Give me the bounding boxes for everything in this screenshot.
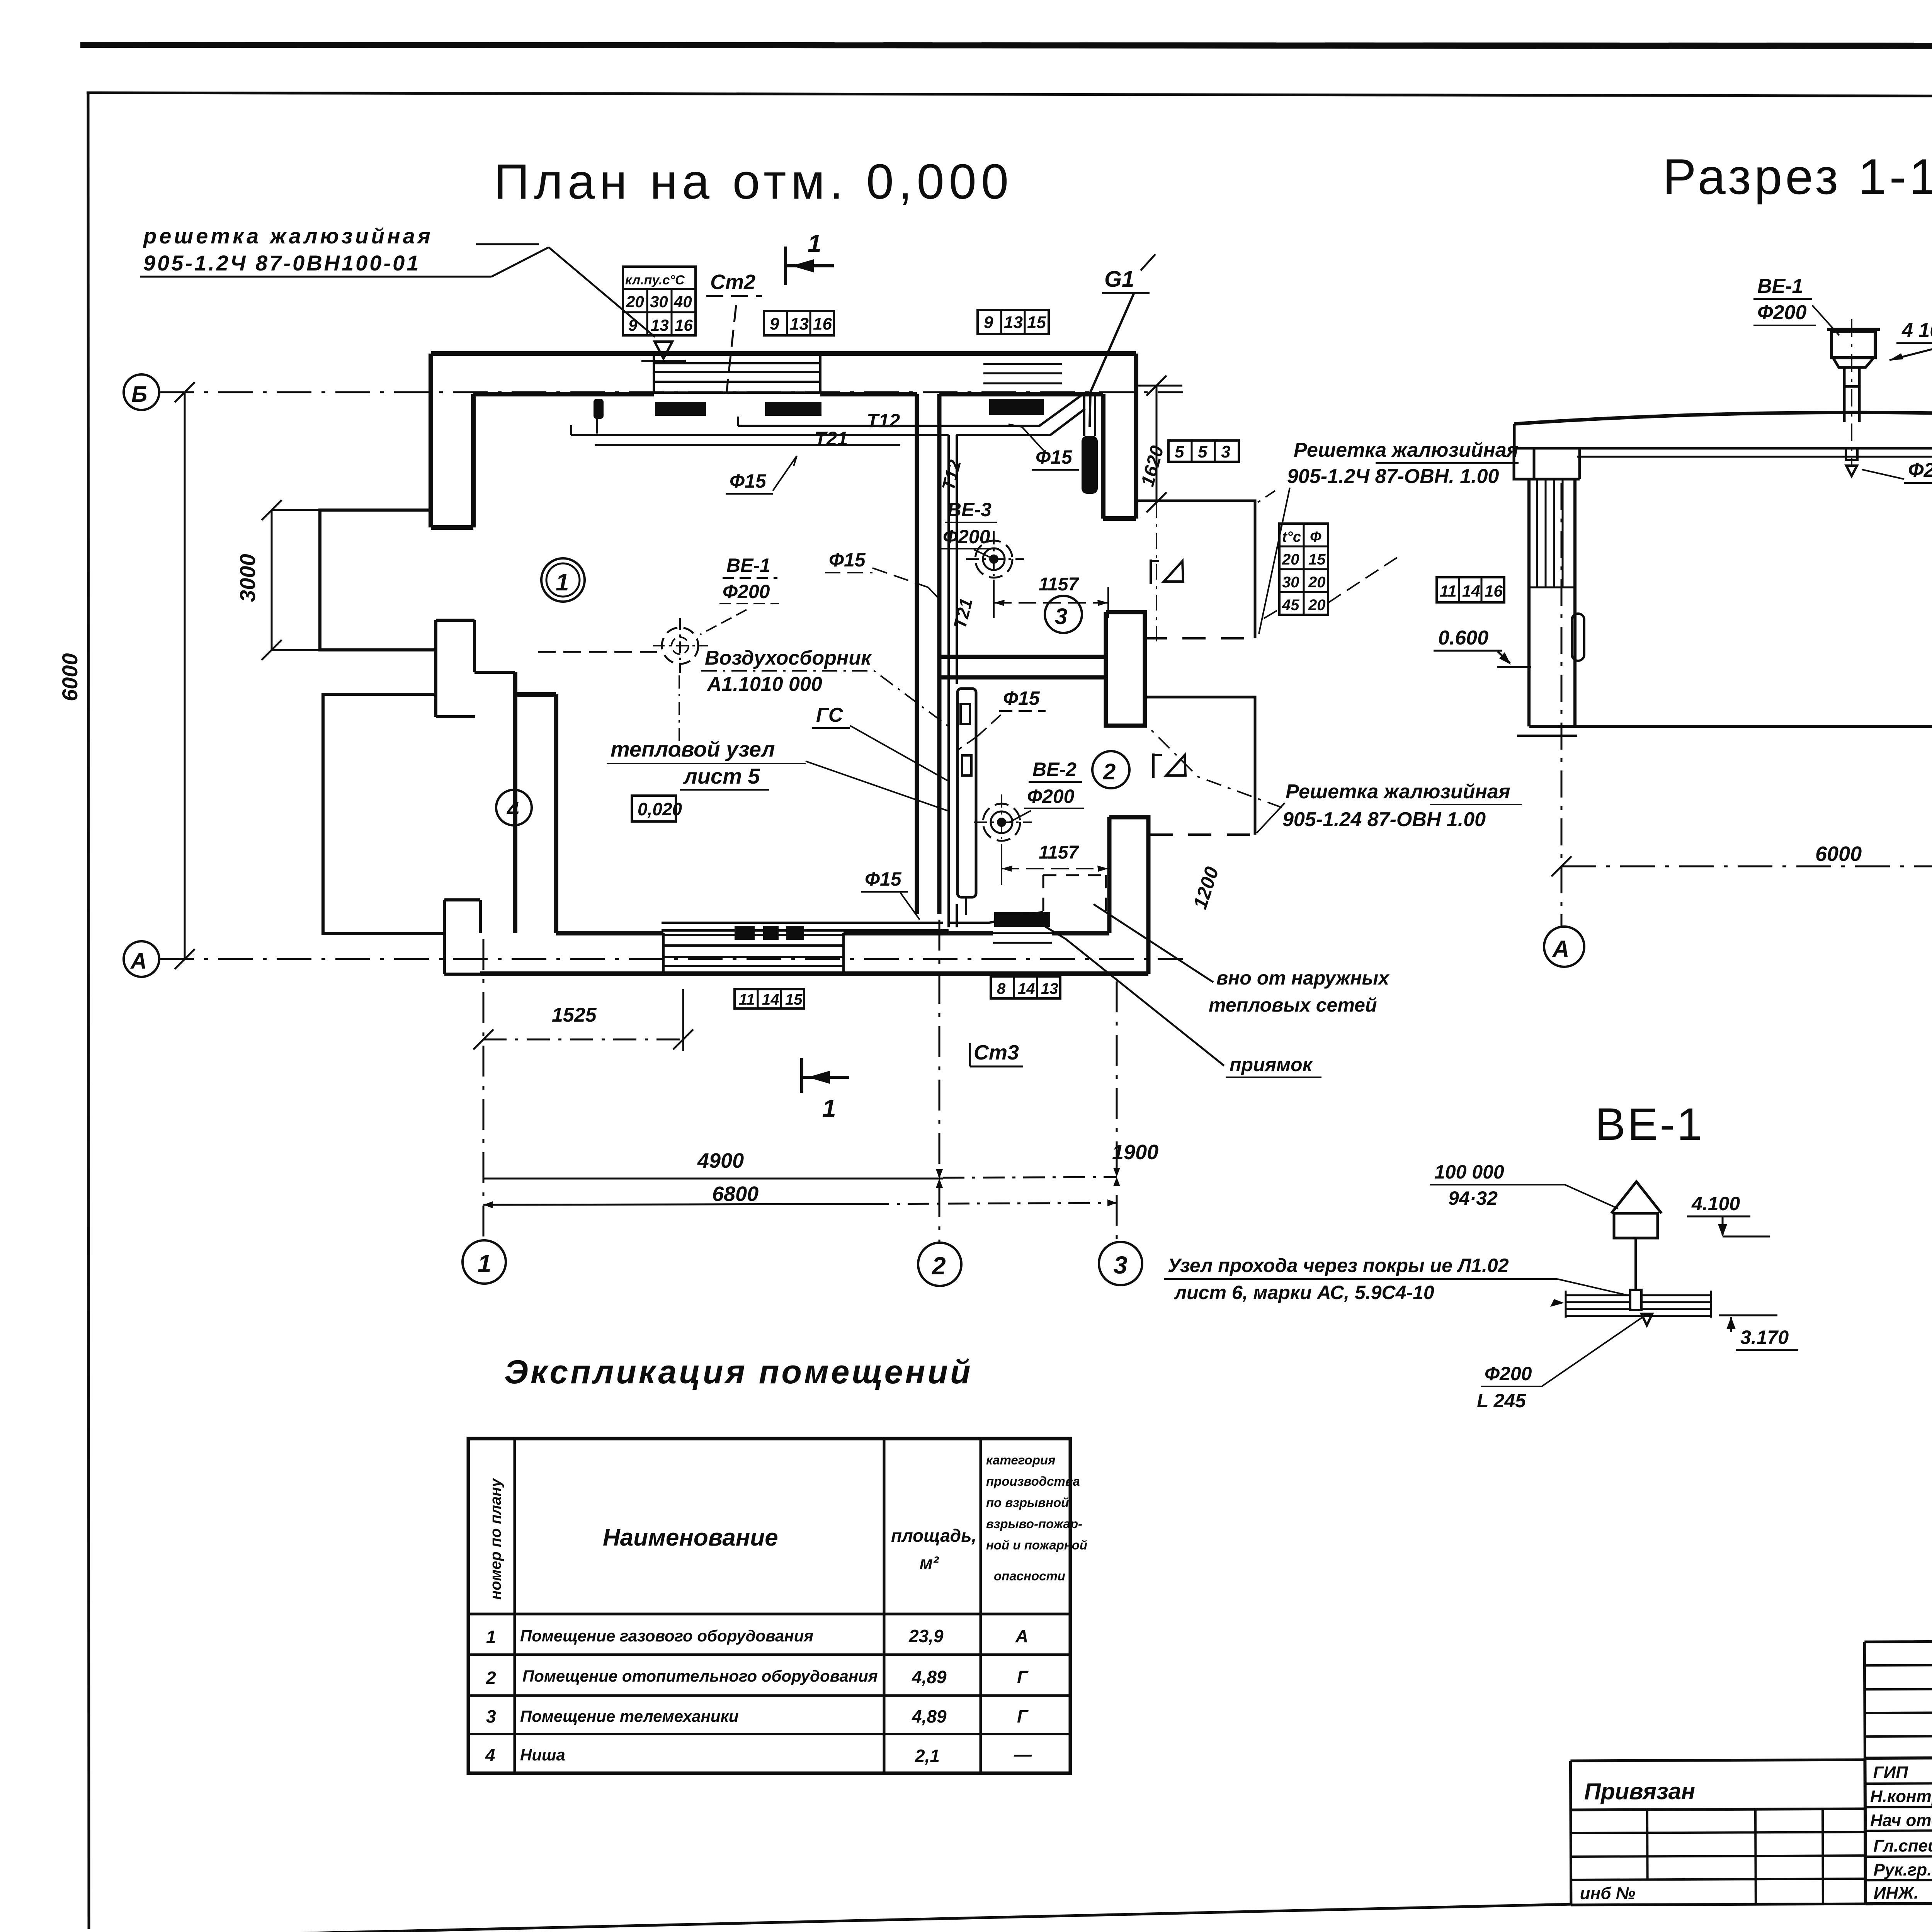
svg-text:1157: 1157 [1039,842,1080,863]
svg-text:9: 9 [628,316,638,334]
room mark 2 [1092,751,1129,788]
wall: left lower inner line [515,694,556,933]
svg-text:Ф200: Ф200 [1757,301,1806,324]
pipe loop at left radiator [571,417,900,445]
svg-text:Г: Г [1017,1706,1029,1726]
svg-text:Ст2: Ст2 [710,270,755,294]
svg-text:15: 15 [1308,551,1326,568]
dim 6800 line [483,1204,867,1205]
svg-text:А: А [130,949,147,974]
svg-text:100 000: 100 000 [1434,1161,1504,1183]
heat unit device [957,689,976,897]
svg-text:30: 30 [1282,574,1299,591]
svg-text:13: 13 [651,316,669,334]
svg-text:ВЕ-1: ВЕ-1 [1757,275,1803,298]
svg-text:2: 2 [1103,759,1116,784]
radiator hatched block room3 top [989,399,1044,415]
svg-text:8: 8 [997,980,1006,997]
vent BE-2 symbol [974,794,1032,850]
table header bottom [468,1613,1070,1616]
sheet frame top line [87,93,1932,97]
svg-text:4: 4 [507,797,519,821]
svg-text:0.600: 0.600 [1438,627,1488,649]
svg-text:опасности: опасности [994,1569,1065,1583]
svg-text:А1.1010 000: А1.1010 000 [706,673,822,696]
svg-text:Наименование: Наименование [603,1524,778,1551]
svg-text:3: 3 [1114,1251,1128,1279]
svg-text:13: 13 [1004,313,1023,332]
svg-text:Б: Б [131,382,147,407]
svg-text:Нач отд: Нач отд [1870,1811,1932,1830]
dashed box under dim room2 [1043,875,1106,912]
window louver lines in top wall [654,354,820,394]
svg-text:3: 3 [1221,442,1230,461]
svg-text:Решетка жалюзийная: Решетка жалюзийная [1286,781,1510,803]
pier bottom-left [444,900,481,974]
svg-text:23,9: 23,9 [908,1626,944,1646]
svg-text:3: 3 [1055,604,1067,629]
svg-text:6000: 6000 [1815,842,1862,866]
dim 4900/1900 line [483,1178,943,1180]
svg-text:2,1: 2,1 [915,1746,940,1766]
room mark 1 [541,558,585,602]
wall: top exterior inner line (left of window) [473,392,654,396]
svg-text:3: 3 [486,1706,496,1726]
axis 1 vertical [483,939,485,1240]
svg-text:4.100: 4.100 [1691,1193,1740,1214]
svg-text:94·32: 94·32 [1448,1187,1498,1209]
svg-text:20: 20 [626,293,644,311]
svg-text:Помещение телемеханики: Помещение телемеханики [520,1707,739,1725]
svg-text:номер по плану: номер по плану [487,1478,504,1600]
vent neck [1833,358,1874,367]
interior partition vertical double line [917,394,939,914]
svg-text:производства: производства [986,1474,1080,1488]
wall: bottom exterior inner segments [556,931,1109,935]
wall: left upper outer line [429,354,433,527]
pipe T21 horizontal [748,409,1085,435]
svg-text:Помещение газового оборудова: Помещение газового оборудования [520,1627,813,1645]
table row lines [468,1655,1070,1734]
box 8 14 13 bottom [991,976,1060,998]
svg-text:Решетка жалюзийная: Решетка жалюзийная [1294,439,1518,461]
louver lines left wall [1529,479,1575,587]
niche upper outline [320,510,436,650]
svg-text:9: 9 [770,315,779,333]
svg-text:20: 20 [1282,551,1299,568]
axis A line [159,958,1183,960]
svg-text:м²: м² [920,1553,939,1573]
svg-text:t°c: t°c [1282,529,1301,545]
svg-text:4,89: 4,89 [912,1706,947,1726]
svg-text:14: 14 [1462,582,1480,600]
svg-text:4,89: 4,89 [912,1667,947,1687]
svg-text:Ф15: Ф15 [829,549,866,571]
bottom sill hatched blocks [735,926,755,940]
svg-text:Ф15: Ф15 [865,868,902,890]
svg-text:3.170: 3.170 [1740,1327,1789,1348]
svg-text:9: 9 [984,313,993,332]
louver lines small top-right window [983,364,1062,383]
svg-text:11: 11 [1440,582,1457,600]
svg-text:905-1.2Ч 87-ОВН. 1.00: 905-1.2Ч 87-ОВН. 1.00 [1287,465,1499,488]
svg-text:Ф200: Ф200 [1027,786,1075,807]
svg-text:ВЕ-1: ВЕ-1 [726,554,770,576]
svg-text:3000: 3000 [235,554,260,602]
svg-text:11: 11 [739,991,755,1008]
svg-text:Ф15: Ф15 [730,470,767,492]
radiator hatched block below window right [765,402,821,416]
roof slab end caps [1514,421,1932,448]
svg-text:20: 20 [1308,574,1326,591]
sheet heavy top rule [80,45,1932,46]
pipe T12 horizontal [738,395,1082,426]
roof slab top curve [1514,412,1932,424]
svg-text:инб №: инб № [1580,1884,1636,1903]
svg-text:Ф: Ф [1310,529,1321,545]
BE-1 sleeve [1630,1290,1641,1310]
svg-text:ВЕ-2: ВЕ-2 [1032,759,1077,780]
svg-text:ВЕ-3: ВЕ-3 [947,499,992,520]
svg-text:по взрывной,: по взрывной, [986,1495,1073,1510]
flag symbol room3 [1151,560,1183,584]
svg-text:4 100: 4 100 [1901,319,1932,342]
BE-1 pipe [1634,1238,1637,1290]
svg-text:1157: 1157 [1039,574,1080,595]
wall: right exterior upper (room3) [1103,354,1136,519]
svg-text:План на отм. 0,000: План на отм. 0,000 [494,154,1013,209]
svg-text:2: 2 [932,1252,946,1280]
svg-text:ГИП: ГИП [1873,1763,1908,1782]
svg-text:40: 40 [673,293,692,311]
svg-text:тепловых сетей: тепловых сетей [1209,994,1377,1016]
stamp upper grid [1864,1639,1932,1758]
G1 riser dark block [1082,436,1098,494]
svg-text:Ф15: Ф15 [1003,687,1040,709]
svg-text:14: 14 [1018,980,1035,997]
pipes along bottom wall [662,912,1043,930]
dim line 6000 left [175,382,195,969]
svg-text:16: 16 [1485,582,1503,600]
wall: left lower outer line [513,672,517,933]
small outlet under roof [1846,448,1857,460]
svg-text:решетка жалюзийная: решетка жалюзийная [143,224,433,248]
temp table 2x4 [1279,524,1328,615]
svg-text:взрыво-пожар-: взрыво-пожар- [986,1517,1082,1531]
section wall left outer [1527,479,1531,726]
svg-text:0,020: 0,020 [638,799,682,819]
wall: left upper inner line [431,394,473,527]
svg-text:2: 2 [486,1668,496,1688]
stamp main rows [1865,1755,1932,1904]
svg-text:45: 45 [1282,597,1299,614]
svg-text:4: 4 [485,1745,495,1765]
table t/f top-left 3x3 [623,267,696,335]
svg-text:L 245: L 245 [1477,1390,1526,1412]
svg-text:—: — [1014,1744,1032,1764]
section axis circle A [1544,927,1584,967]
G1 gas riser leader [1090,293,1134,427]
svg-text:G1: G1 [1104,267,1134,292]
sheet frame bottom line [90,1904,1572,1932]
svg-text:Ф200: Ф200 [1908,459,1932,481]
svg-text:Ниша: Ниша [520,1746,565,1764]
svg-text:1900: 1900 [1112,1141,1158,1164]
svg-text:Привязан: Привязан [1584,1778,1696,1804]
box 11 14 16 section [1437,577,1504,602]
table outer frame [468,1439,1070,1773]
box 9 13 16 left [764,311,834,335]
svg-text:Разрез 1-1: Разрез 1-1 [1663,148,1932,205]
BE-1 cap body [1614,1213,1658,1238]
vent BE-1 on roof: cap [1827,329,1880,358]
svg-text:ГС: ГС [816,704,844,726]
axis B circle [124,374,159,410]
sheet frame left line [88,93,89,1929]
axis 3 circle [1099,1242,1142,1285]
svg-text:категория: категория [986,1453,1055,1467]
svg-text:приямок: приямок [1230,1054,1313,1075]
pier H between niches [436,620,515,717]
svg-text:Узел прохода через покры ие: Узел прохода через покры ие Л1.02 [1168,1255,1509,1276]
wall: bottom exterior outer line [480,971,1148,976]
axis 3 vertical [1116,981,1118,1241]
svg-text:1: 1 [556,569,569,596]
svg-text:ной и пожарной: ной и пожарной [986,1538,1087,1552]
svg-text:Рук.гр.: Рук.гр. [1873,1860,1932,1879]
vestibule upper outline [1136,501,1255,638]
vent BE-3 symbol [966,531,1024,587]
bottom window louver lines [663,933,844,974]
wall: top exterior outer line [431,351,1136,356]
svg-text:Ф200: Ф200 [723,581,770,602]
BE-1 cap triangle [1611,1182,1662,1213]
svg-text:1: 1 [486,1627,496,1647]
staff rows texts [1870,1762,1932,1904]
door handle left [1572,614,1584,661]
BE-1 bottom triangle [1641,1314,1652,1325]
bottom louver hatched block room2 [994,912,1050,927]
svg-text:5: 5 [1175,442,1184,461]
section cut mark bottom [802,1058,849,1093]
header category [986,1453,1087,1583]
svg-text:ВЕ-1: ВЕ-1 [1595,1099,1704,1150]
svg-text:вно от наружных: вно от наружных [1216,967,1390,989]
svg-text:А: А [1015,1626,1028,1646]
svg-text:13: 13 [790,315,809,333]
svg-text:30: 30 [650,293,668,311]
svg-text:тепловой узел: тепловой узел [611,737,775,761]
svg-text:905-1.24 87-ОВН 1.00: 905-1.24 87-ОВН 1.00 [1282,808,1486,831]
section axis lines [1561,483,1563,926]
svg-text:Ф200: Ф200 [1485,1363,1532,1384]
elevation box 0,020 [632,796,676,821]
air collector symbol [538,618,708,757]
svg-text:Н.контр.: Н.контр. [1870,1787,1932,1806]
svg-text:14: 14 [762,991,779,1008]
T-pier between rooms 2 and 3 [1106,612,1145,726]
svg-text:Т21: Т21 [815,428,848,449]
flag symbol room2 [1153,753,1185,778]
svg-text:лист 5: лист 5 [683,764,760,788]
axis A circle [124,941,159,977]
svg-text:4900: 4900 [697,1149,744,1172]
svg-text:6800: 6800 [712,1182,759,1206]
svg-text:кл.пу.с°С: кл.пу.с°С [625,273,685,287]
svg-text:ИНЖ.: ИНЖ. [1874,1884,1919,1903]
vent pipe [1844,367,1859,422]
section cut mark top [786,247,834,285]
triangle marker under roof [1846,466,1857,476]
roof slab bottom line [1517,447,1932,450]
svg-text:1525: 1525 [552,1004,597,1026]
niche room4 outline [323,694,444,934]
box 11 14 15 bottom [735,989,804,1009]
box 553 [1168,440,1239,462]
BE-1 roof hatch lines [1566,1291,1711,1318]
pipe risers along partition [949,435,957,927]
section dim 6000 [1561,866,1932,867]
axis 2 circle [918,1243,961,1286]
svg-text:20: 20 [1308,597,1326,614]
svg-text:1: 1 [808,230,821,257]
room mark 3 [1045,596,1082,633]
table verticals [515,1439,981,1773]
svg-text:5: 5 [1198,442,1207,461]
St2 riser block [594,399,604,419]
svg-text:Ф15: Ф15 [1036,446,1073,468]
svg-text:15: 15 [785,991,803,1008]
svg-text:А: А [1552,936,1569,962]
section floor line [1529,725,1932,728]
nabla marker [641,342,686,361]
svg-text:Т12: Т12 [867,410,900,432]
svg-text:15: 15 [1027,313,1046,332]
svg-text:1: 1 [822,1094,836,1122]
wall: top exterior inner line (right of window) [820,392,1103,396]
svg-text:Ст3: Ст3 [974,1041,1019,1064]
svg-text:1: 1 [478,1250,492,1277]
svg-text:16: 16 [813,315,832,333]
leader to temp table [1259,556,1399,621]
svg-text:6000: 6000 [58,653,82,701]
axis 1 circle [463,1240,506,1284]
room mark 4 [496,790,532,825]
cornice left [1514,448,1580,479]
vent axis dash [1851,319,1852,466]
radiator hatched block below window left [655,402,706,416]
axis 2 vertical [939,920,940,1242]
svg-text:Помещение отопительного оборуд: Помещение отопительного оборудования [522,1667,878,1685]
stamp left part privyazan [1570,1760,1865,1905]
vestibule lower outline [1147,697,1255,835]
svg-text:площадь,: площадь, [891,1526,976,1546]
svg-text:16: 16 [675,316,693,334]
svg-text:905-1.2Ч 87-0ВН100-01: 905-1.2Ч 87-0ВН100-01 [143,251,420,275]
svg-text:Ф200: Ф200 [943,526,990,548]
svg-text:Гл.спец: Гл.спец [1873,1836,1932,1855]
svg-text:13: 13 [1041,980,1058,997]
interior partition horizontal rooms 2/3 [939,657,1106,677]
svg-text:лист 6, марки АС, 5.9С4-10: лист 6, марки АС, 5.9С4-10 [1174,1282,1434,1303]
dim line 3000 [262,500,431,660]
ceiling line [1577,456,1932,458]
leader dashes to vneshnie seti [1043,904,1224,1066]
svg-text:Воздухосборник: Воздухосборник [705,647,872,669]
axis B line [159,391,1183,393]
section wall left inner [1573,479,1577,726]
pier lower-right [1109,817,1148,974]
box 9 13 15 right [978,310,1049,334]
svg-text:Г: Г [1017,1667,1029,1687]
svg-text:Экспликация помещений: Экспликация помещений [504,1354,973,1391]
